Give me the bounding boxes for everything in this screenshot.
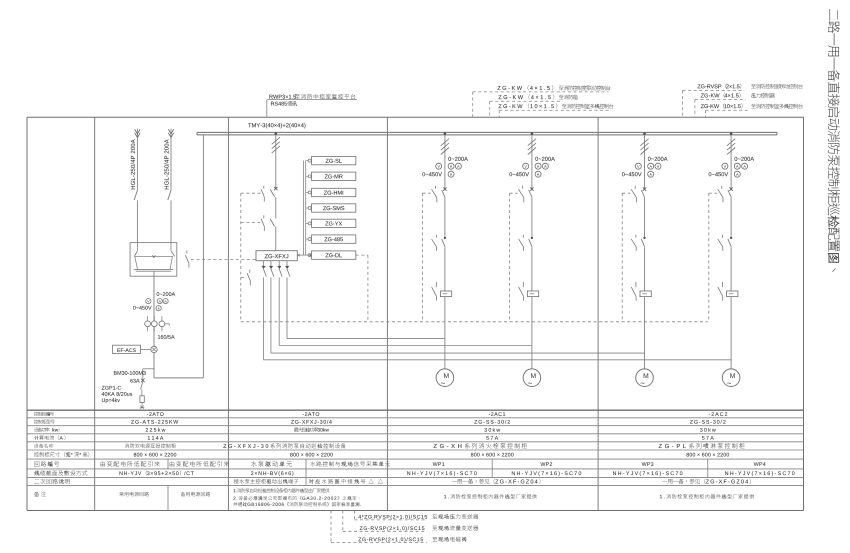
XFXJ riser phase slashes: [272, 137, 280, 153]
module box ZG-485: [306, 235, 356, 243]
ATS transfer switch -2ATO: [130, 243, 177, 277]
branch AC2a meter A2: [655, 163, 661, 169]
branch AC1b wire mid: [531, 198, 533, 238]
annotation AC2 line3 leader: [706, 110, 748, 117]
branch AC2b wire mid: [730, 198, 732, 238]
branch AC2a meter A3: [648, 171, 654, 177]
branch AC1a wire to motor: [444, 297, 446, 369]
branch AC1b patrol dashed edge: [509, 193, 511, 322]
branch AC1b meter V: [523, 163, 529, 169]
branch AC2a wire lower: [644, 247, 646, 291]
branch AC1b breaker aux: [519, 186, 524, 203]
annotation AC1 line3 leader: [499, 110, 609, 117]
table sub-divider AC2 col: [707, 459, 709, 477]
table grid rows: [27, 410, 804, 485]
XFXJ breaker2 blade: [270, 219, 274, 227]
motor M AC1a: [436, 369, 454, 387]
branch AC1a wire lower: [444, 247, 446, 291]
branch AC1b wire upper: [531, 135, 533, 189]
section divider x=387.4: [386, 117, 388, 510]
branch AC2b meter A2: [742, 163, 748, 169]
wire ATS output to riser: [154, 377, 203, 379]
label 63A: [130, 379, 139, 383]
table sub-divider XFXJ col: [305, 459, 307, 485]
annotation AC1 line2 leader: [490, 101, 561, 117]
dashed link ZG-DL to patrol loop: [356, 255, 368, 322]
annotation AC1 line1 leader: [473, 92, 609, 117]
busbar TMY: [197, 132, 777, 135]
branch AC2b wire lower: [730, 247, 732, 291]
EF-ACS meter box: [113, 345, 151, 353]
branch AC2b label 0-450V: [709, 172, 729, 176]
annotation AC1 line1: [497, 85, 610, 90]
busbar label TMY-3(40x4)+2(40x4): [248, 123, 305, 128]
section divider x=598.1: [597, 117, 599, 510]
annotation AC1 line3: [498, 103, 613, 108]
field annotation flow transmitter: [360, 525, 478, 531]
field annotation solenoid valve: [358, 537, 466, 543]
branch AC2a breaker mark: [643, 187, 646, 190]
branch AC2b contactor aux: [718, 235, 723, 251]
annotation AC2 line2: [701, 93, 775, 98]
patrol dashed enclosure left edge: [240, 193, 242, 322]
branch AC1b contactor aux: [519, 235, 524, 251]
branch AC1a meter V: [436, 163, 442, 169]
branch AC1b dashed aux link: [510, 192, 518, 194]
XFXJ breaker aux contact: [261, 186, 264, 202]
branch AC1b meter A2: [542, 163, 548, 169]
branch AC1b tap dot: [531, 132, 534, 135]
branch AC2b thermal relay: [727, 291, 738, 297]
module bus lines: [304, 161, 306, 256]
label BM30-100M3: [114, 371, 146, 375]
branch AC2a meter V: [635, 163, 641, 169]
branch AC1a meter A1: [448, 163, 454, 169]
branch AC1a thermal relay: [440, 291, 451, 297]
module box ZG-HMI: [306, 188, 356, 196]
wire XFXJ to controller: [275, 227, 277, 251]
SPD switch blade: [141, 382, 143, 396]
branch AC2a breaker blade: [641, 190, 644, 198]
patrol aux contact below controller: [247, 270, 250, 286]
section divider x=228.4: [227, 117, 229, 510]
branch AC2a thermal aux: [631, 282, 636, 301]
branch AC1a meter A2: [455, 163, 461, 169]
branch AC2b dashed aux link: [709, 192, 717, 194]
branch AC1a wire upper: [444, 135, 446, 189]
branch AC2b phase slashes: [727, 139, 735, 155]
branch AC1a breaker blade: [442, 190, 445, 198]
wire SPD branch: [143, 369, 154, 379]
feeder 1 label: [131, 139, 135, 189]
branch AC2b breaker blade: [728, 190, 731, 198]
branch AC1a contactor blade: [442, 239, 445, 247]
branch AC1a meter A3: [448, 171, 454, 177]
ATS aux contact: [185, 250, 189, 267]
branch AC2a meter A1: [648, 163, 654, 169]
wire ATS output: [153, 276, 155, 378]
branch AC2b wire upper: [730, 135, 732, 189]
patrol drive wire 3 to motor: [269, 261, 644, 353]
label 0-200A (ATS): [157, 292, 176, 296]
SPD fuse mark: [141, 379, 145, 383]
XFXJ breaker QF blade: [270, 189, 274, 197]
riser to busbar: [202, 135, 204, 378]
branch AC2a label 0-200A: [648, 157, 668, 161]
branch AC2a contactor aux: [631, 235, 636, 251]
meter A1 (ATS): [157, 299, 162, 304]
wire XFXJ mid: [275, 197, 277, 218]
branch AC1a breaker aux: [432, 186, 437, 203]
branch AC1b breaker blade: [529, 190, 532, 198]
feeder 2 incoming HGL-250/4P 200A: [168, 129, 174, 243]
branch AC1b label 0-450V: [509, 172, 529, 176]
meter V (ATS): [146, 299, 151, 304]
branch AC2b contactor blade: [728, 239, 731, 247]
motor M AC2a: [636, 369, 654, 387]
branch AC2a contactor dot: [643, 237, 645, 239]
branch AC1b meter A3: [535, 171, 541, 177]
branch AC2b breaker aux: [718, 186, 723, 203]
branch AC1b phase slashes: [528, 139, 536, 155]
branch AC1b meter A1: [535, 163, 541, 169]
label 160/5A: [158, 335, 175, 339]
branch AC2b tap dot: [730, 132, 733, 135]
controller ZG-XFXJ box: [256, 251, 297, 261]
table sub-divider ATS col: [167, 459, 169, 510]
label 0-450V (ATS): [133, 306, 152, 310]
annotation AC1 line2: [498, 94, 577, 99]
branch AC1b breaker mark: [530, 187, 533, 190]
branch AC1a patrol dashed edge: [422, 193, 424, 322]
branch AC1a label 0-450V: [422, 172, 442, 176]
motor M AC1b: [523, 369, 541, 387]
branch AC1b thermal relay: [527, 291, 538, 297]
annotation AC2 line1: [697, 84, 802, 89]
XFXJ riser tap dot: [275, 132, 278, 135]
branch AC2a tap dot: [643, 132, 646, 135]
branch AC1a breaker mark: [443, 187, 446, 190]
table row labels: [34, 412, 89, 497]
EF-ACS CT circle: [151, 346, 157, 352]
meter A2 (ATS): [163, 299, 168, 304]
module box ZG-SMS: [306, 204, 356, 212]
wire XFXJ riser: [275, 135, 277, 188]
branch AC1a phase slashes: [441, 139, 449, 155]
module box ZG-DL: [306, 251, 356, 259]
label ZGP1-C 40KA: [102, 386, 133, 403]
branch AC2b meter A1: [734, 163, 740, 169]
branch AC1a contactor aux: [432, 235, 437, 251]
drawing title vertical: [828, 9, 840, 272]
branch AC2b patrol dashed edge: [708, 193, 710, 322]
module box ZG-MR: [306, 172, 356, 180]
branch AC2b meter A3: [734, 171, 740, 177]
frame border: [27, 117, 804, 510]
current transformers 160/5A: [145, 316, 169, 331]
branch AC2a thermal relay: [640, 291, 651, 297]
link ZG-XFXJ to ZG-DL: [297, 254, 311, 256]
patrol drive wire 2 to motor: [278, 261, 532, 346]
branch AC2a dashed aux link: [622, 192, 630, 194]
annotation RWP3x1.5 to fire control room platform: [269, 94, 355, 99]
branch AC2a breaker aux: [631, 186, 636, 203]
dashed link patrol aux: [241, 276, 246, 278]
module box ZG-YX: [306, 219, 356, 227]
ATS interlock dashed link to ZG-XFXJ: [191, 259, 256, 261]
branch AC1a label 0-200A: [448, 157, 468, 161]
branch AC2a wire upper: [644, 135, 646, 189]
meter A3 (ATS): [156, 306, 161, 311]
annotation AC2 line1 leader: [683, 90, 745, 117]
branch AC1b contactor dot: [531, 237, 533, 239]
branch AC2b breaker mark: [729, 187, 732, 190]
section divider x=94.7: [94, 117, 96, 510]
surge arrester ZGP1-C: [140, 396, 144, 409]
dashed link breaker aux to patrol box: [241, 192, 261, 194]
branch AC1b wire lower: [531, 247, 533, 291]
branch AC2b contactor dot: [730, 237, 732, 239]
annotation AC2 line2 leader: [695, 100, 746, 118]
branch AC1a contactor dot: [444, 237, 446, 239]
branch AC2a contactor blade: [641, 239, 644, 247]
branch AC1b label 0-200A: [535, 157, 555, 161]
feeder 2 label: [164, 139, 168, 189]
branch AC2a patrol dashed edge: [621, 193, 623, 322]
branch AC1a dashed aux link: [423, 192, 431, 194]
branch AC1b contactor blade: [529, 239, 532, 247]
XFXJ breaker2 aux contact: [261, 215, 264, 231]
branch AC1a tap dot: [444, 132, 447, 135]
branch AC2a phase slashes: [640, 139, 648, 155]
branch AC2a label 0-450V: [622, 172, 642, 176]
patrol dashed enclosure bottom: [241, 321, 708, 323]
motor M AC2b: [722, 369, 740, 387]
patrol drive wire 1 to motor: [285, 261, 445, 339]
field annotation leader 1: [354, 511, 425, 520]
field annotation leader 2: [343, 511, 425, 532]
branch AC1a thermal aux: [432, 282, 437, 301]
branch AC1a wire mid: [444, 198, 446, 238]
dashed link breaker2 aux to patrol box: [241, 222, 261, 224]
field annotation leader 3: [331, 511, 427, 543]
branch AC1b wire to motor: [531, 297, 533, 369]
module box ZG-SL: [306, 156, 356, 164]
branch AC1b thermal aux: [519, 282, 524, 301]
branch AC2b thermal aux: [718, 282, 723, 301]
patrol drive wire 4 to motor: [262, 261, 731, 360]
XFXJ breaker contact mark: [274, 187, 277, 190]
field annotation pressure transmitter: [358, 514, 478, 520]
annotation AC2 line3: [701, 103, 803, 108]
branch AC2b meter V: [722, 163, 728, 169]
feeder 1 incoming HGL-250/4P 200A: [134, 129, 140, 243]
annotation leader RS485: [267, 100, 357, 118]
branch AC2b wire to motor: [730, 297, 732, 369]
annotation RS485 comms: [271, 101, 297, 106]
branch AC2b label 0-200A: [735, 157, 755, 161]
table sub-divider AC1 col: [491, 459, 493, 477]
branch AC2a wire to motor: [644, 297, 646, 369]
branch AC2a wire mid: [644, 198, 646, 238]
table cell texts: [101, 412, 795, 506]
